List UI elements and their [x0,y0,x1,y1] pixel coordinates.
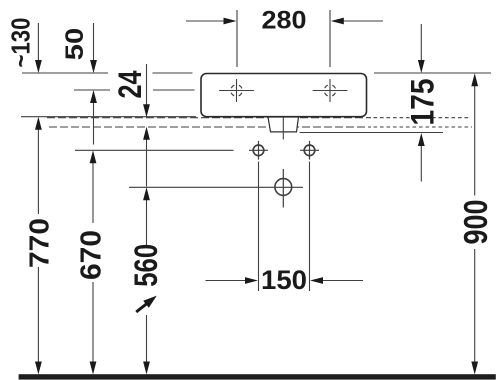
175 reference line (725 level) [300,132,444,134]
850 reference line right segment [153,89,195,91]
svg-text:50: 50 [61,28,89,61]
wall top line right of basin [374,72,491,74]
560 dimension line lower segment [146,315,148,363]
900 arrowhead down at floor [471,362,478,375]
280 extension line left [236,10,238,67]
24 arrowhead down [143,104,150,117]
~130 arrowhead down [35,60,42,73]
~130 arrow shaft [37,23,39,62]
150 arrowhead right [245,277,258,284]
770 arrowhead up [35,117,42,130]
50 arrowhead down [90,60,97,73]
svg-text:150: 150 [261,265,307,295]
900 dimension line upper segment [474,84,476,196]
50 upper arrow shaft [93,23,95,62]
175 upper arrow shaft [420,24,422,62]
wall top line (900 level) left segment [22,72,108,74]
670 dimension line lower segment [92,282,94,363]
175 arrowhead down [418,60,425,73]
670 arrowhead up [90,150,97,163]
560 arrowhead up [143,187,150,200]
560 arrowhead down at floor [143,362,150,375]
150 arrow shaft left [206,280,248,282]
drain reference line (560 level) [129,186,303,188]
floor line [19,374,496,379]
diagonal annotation arrow [136,296,157,312]
svg-text:670: 670 [76,230,108,280]
280 arrowhead left [331,18,344,25]
svg-text:900: 900 [457,200,494,245]
900 arrowhead up [471,73,478,86]
svg-text:~130: ~130 [6,18,36,68]
770 dimension line lower segment [37,267,39,363]
50 lower arrow shaft [93,101,95,145]
drain trapezoid centerline [282,105,284,140]
drain hole circle [275,169,292,208]
dashed rim line upper [47,117,371,119]
770 reference line solid [21,116,196,118]
280 extension line right [329,10,331,67]
150 extension line left [258,162,260,292]
560 dimension line upper segment [146,198,148,245]
svg-text:280: 280 [262,7,307,35]
50 arrowhead up [90,90,97,103]
left faucet hole crosshair [219,79,254,102]
right mounting hole [300,141,319,160]
24 lower arrow shaft [146,138,148,187]
24 upper arrow shaft [146,64,148,106]
770 arrowhead down at floor [35,362,42,375]
900 dimension line lower segment [474,249,476,363]
24 arrowhead up [143,127,150,140]
150 extension line right [309,162,311,292]
280 arrow shaft right [341,20,383,22]
svg-text:24: 24 [112,70,148,98]
right faucet hole crosshair [313,79,348,102]
mounting hole reference line (670 level) [75,149,234,151]
drain outlet trapezoid [268,117,299,132]
dashed rim line lower [49,126,371,128]
150 arrow shaft right [321,280,363,282]
left mounting hole [249,141,268,160]
svg-text:770: 770 [23,218,54,268]
670 arrowhead down at floor [90,362,97,375]
dashed rim line upper right part [374,117,471,119]
dashed rim line lower right part [374,126,473,128]
280 arrow shaft left [186,20,226,22]
svg-text:175: 175 [405,79,441,126]
280 arrowhead right [224,18,237,25]
850 reference line (50 below rim) [74,89,110,91]
150 arrowhead left [310,277,323,284]
basin body [201,74,367,117]
175 lower arrow shaft [420,144,422,182]
770 dimension line upper segment [37,128,39,214]
svg-text:560: 560 [128,244,164,287]
670 dimension line upper segment [92,161,94,223]
wall top line segment between 24 label and basin [153,72,193,74]
175 arrowhead up [418,133,425,146]
